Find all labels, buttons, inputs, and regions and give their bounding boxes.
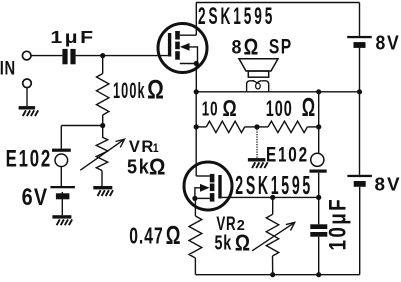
wire Q1 drain to top rail <box>195 3 197 36</box>
svg-text:8V: 8V <box>375 173 401 194</box>
label 5k ohm VR1 <box>127 153 165 179</box>
svg-text:1μF: 1μF <box>50 27 95 47</box>
terminal IN hot <box>22 51 31 60</box>
label 100 ohm <box>266 92 315 122</box>
wire junction to left earphone branch <box>61 125 102 127</box>
battery B2 8V <box>347 175 372 187</box>
node mid rail / battery rail junction <box>357 89 362 94</box>
terminal IN ground side <box>23 79 32 88</box>
node right rail / gate row <box>316 195 321 200</box>
ground under VR1 <box>93 186 113 196</box>
wire Q2 source down to 0.47 ohm <box>194 198 196 216</box>
svg-text:E102: E102 <box>6 147 52 173</box>
earphone E102 right (body + plate) <box>310 153 327 173</box>
battery 6V <box>50 186 75 199</box>
svg-text:Ω: Ω <box>244 33 259 59</box>
svg-text:8V: 8V <box>376 32 401 54</box>
resistor 100 ohm <box>257 121 319 132</box>
svg-text:Ω: Ω <box>235 229 250 255</box>
transistor Q1 2SK1595 (upper) <box>158 24 207 73</box>
node 10/100 ohm junction <box>254 124 259 129</box>
node 100k / VR1 / earphone junction <box>100 123 105 128</box>
VR1 wiper arrow <box>80 139 124 170</box>
svg-text:6V: 6V <box>22 185 49 211</box>
wire IN ground terminal stem <box>26 88 28 107</box>
node bottom rail / 10uF branch <box>316 272 321 277</box>
wire battery 6V to ground <box>61 192 63 215</box>
node input / 100k junction <box>100 53 105 58</box>
svg-text:IN: IN <box>0 57 16 79</box>
svg-text:10μF: 10μF <box>325 197 352 251</box>
svg-text:Ω: Ω <box>302 92 315 122</box>
wire left rail mid-to-Q2 <box>195 92 197 176</box>
capacitor 10uF <box>310 224 327 236</box>
resistor 10 ohm <box>196 121 257 132</box>
node mid rail left junction <box>194 89 199 94</box>
wire right rail mid rail to earphone <box>318 92 320 154</box>
speaker SP 8 ohm <box>239 59 278 92</box>
ground under IN terminal <box>19 106 39 116</box>
svg-text:Ω: Ω <box>149 153 165 179</box>
svg-text:100k: 100k <box>113 78 146 103</box>
label VR2 <box>216 213 245 235</box>
variable resistor VR1 5k <box>96 126 107 187</box>
wire battery B2 to bottom rail <box>359 187 361 275</box>
svg-text:Ω: Ω <box>223 95 237 121</box>
svg-text:SP: SP <box>269 36 293 59</box>
svg-text:E102: E102 <box>266 144 309 167</box>
wire IN to capacitor C1 <box>31 55 62 57</box>
resistor 100k ohm <box>97 56 109 126</box>
node right rail / mid rail <box>316 89 321 94</box>
svg-text:2SK1595: 2SK1595 <box>198 4 275 30</box>
earphone E102 left (plate + body) <box>52 149 71 167</box>
wire right rail gate row to 10uF <box>318 197 320 224</box>
svg-text:8: 8 <box>232 36 242 58</box>
wire right battery rail top segment <box>359 3 361 36</box>
wire mid rail <box>196 91 360 93</box>
wire top rail <box>196 2 360 4</box>
wire capacitor C1 to gate of Q1 <box>76 55 168 57</box>
VR2 wiper arrow <box>252 222 295 250</box>
label VR1 <box>129 137 159 156</box>
label 8 ohm SP <box>232 33 293 59</box>
wire earphone right to gate row <box>318 173 320 198</box>
node bottom rail / VR2 <box>270 272 275 277</box>
wire dotted junction to chassis ground <box>256 129 258 158</box>
resistor 0.47 ohm <box>189 216 202 275</box>
wire earphone E102 left stem <box>60 126 62 149</box>
node left rail / resistor row <box>194 124 199 129</box>
wire Q1 source down to mid rail <box>195 64 197 92</box>
wire earphone to battery 6V <box>60 167 62 186</box>
label 10 ohm <box>202 95 237 121</box>
svg-text:100: 100 <box>266 96 293 121</box>
ground under 10/100 junction <box>248 158 268 168</box>
svg-text:2SK1595: 2SK1595 <box>235 170 313 200</box>
wire bottom rail <box>196 274 360 276</box>
wire Q2 gate to right rail <box>222 196 319 198</box>
svg-text:Ω: Ω <box>147 74 164 105</box>
label 100k ohm <box>113 74 164 105</box>
node gate row / VR2 junction <box>270 195 275 200</box>
svg-text:Ω: Ω <box>166 222 181 250</box>
ground under 6V battery <box>52 215 72 225</box>
transistor Q2 2SK1595 (lower) <box>184 162 232 210</box>
svg-text:5k: 5k <box>127 156 151 179</box>
wire 10uF to bottom rail <box>318 237 320 275</box>
wire battery rail between mid rail and B2 <box>359 92 361 175</box>
battery B1 8V <box>347 36 372 48</box>
node right rail / resistor row <box>316 124 321 129</box>
variable resistor VR2 5k <box>266 197 278 274</box>
svg-text:5k: 5k <box>215 231 232 254</box>
label 5k ohm VR2 <box>215 229 251 255</box>
wire battery B1 to mid rail <box>359 48 361 92</box>
label 0.47 ohm <box>129 222 180 250</box>
svg-text:10: 10 <box>202 99 219 121</box>
capacitor C1 1uF <box>62 49 75 64</box>
label 10uF (rotated) <box>325 197 352 251</box>
svg-text:0.47: 0.47 <box>129 222 164 248</box>
